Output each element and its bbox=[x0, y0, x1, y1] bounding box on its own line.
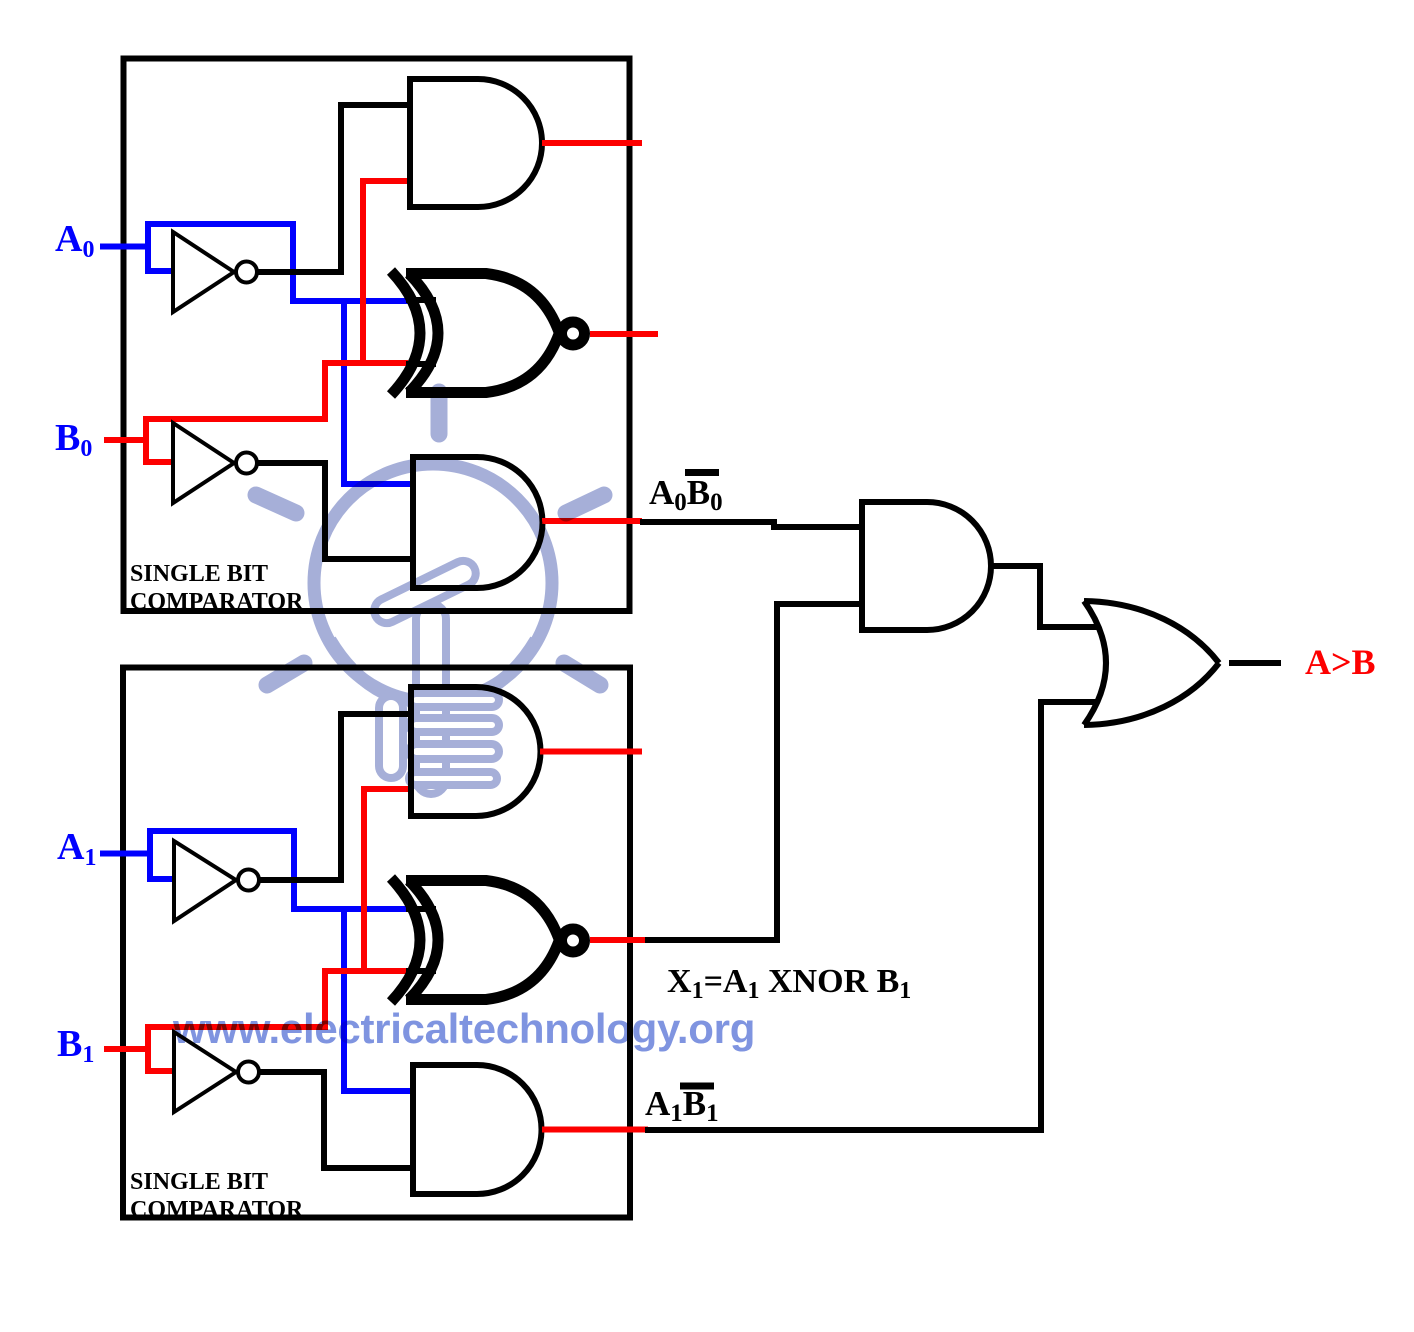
wire: A1B1bar to OR G8 (black) bbox=[645, 702, 1097, 1133]
and gate G1 (A0bar.B0) bbox=[410, 79, 542, 207]
and gate G7 bbox=[862, 502, 991, 630]
svg-text:SINGLE BIT: SINGLE BIT bbox=[130, 561, 268, 587]
watermark bulb glass circle bbox=[314, 464, 552, 702]
wire: G5 output stub X1 (red) bbox=[590, 937, 648, 943]
watermark hand: finger 2 bbox=[409, 718, 499, 732]
xnor gate G5 body bbox=[406, 881, 559, 1000]
watermark hand: clip diagonal bbox=[370, 557, 480, 628]
box: single bit comparator 1 bbox=[123, 668, 630, 1218]
wire: input row connectors through G5 curves (black) bbox=[406, 909, 436, 971]
svg-text:X1=A1 XNOR B1: X1=A1 XNOR B1 bbox=[667, 963, 911, 1004]
svg-text:COMPARATOR: COMPARATOR bbox=[130, 589, 304, 615]
watermark hand: thumb bbox=[379, 696, 403, 778]
watermark ray top bbox=[431, 392, 448, 434]
xnor gate G2 body bbox=[406, 274, 559, 393]
wire: input row connectors through G2 curves (black) bbox=[406, 300, 436, 364]
wire: G7 output to OR G8 (black) bbox=[991, 563, 1097, 627]
watermark hand: pencil vertical bbox=[416, 604, 446, 794]
svg-text:SINGLE BIT: SINGLE BIT bbox=[130, 1169, 268, 1195]
wire: A1 input net (blue) bbox=[100, 828, 415, 1091]
wire: X1 to AND G7 (black) bbox=[645, 604, 864, 943]
watermark ray upper-left bbox=[256, 495, 296, 513]
wire: G3 output stub (red) bbox=[542, 518, 642, 524]
watermark: light bulb + hand logo and site text (multiply blend) bbox=[172, 392, 755, 1052]
box: single bit comparator 0 bbox=[124, 59, 630, 612]
or gate G8 bbox=[1084, 601, 1219, 725]
wire: A0 input net (blue) bbox=[100, 221, 415, 484]
wire: G2 output stub (red, A0=B0 unused) bbox=[590, 331, 658, 337]
inverter U3 (A1 NOT) bbox=[174, 841, 236, 921]
overline on B1 bbox=[680, 1083, 714, 1090]
wire: B1 input net (red) bbox=[104, 789, 413, 1071]
wire: B0 input net (red) bbox=[104, 181, 412, 462]
wire: B1-bar (black) from U4 to AND G6 bbox=[259, 1069, 415, 1168]
svg-text:www.electricaltechnology.org: www.electricaltechnology.org bbox=[172, 1005, 755, 1052]
xnor gate G2 output bubble bbox=[562, 322, 585, 345]
watermark ray lower-right bbox=[564, 663, 600, 685]
wire: A0-bar (black) from U1 to AND G1 bbox=[257, 105, 412, 275]
watermark bulb neck taper left bbox=[330, 640, 384, 693]
overline on B0 bbox=[685, 469, 719, 476]
wire: output A>B (black) bbox=[1229, 660, 1281, 666]
xnor gate G2 (A0 XNOR B0) input curve bbox=[391, 271, 420, 395]
and gate G4 (A1bar.B1) bbox=[411, 687, 541, 816]
wire: A1-bar (black) from U3 to AND G4 bbox=[259, 714, 413, 883]
watermark ray lower-left bbox=[267, 663, 304, 685]
inverter U2 (B0 NOT) bbox=[173, 423, 234, 503]
svg-text:COMPARATOR: COMPARATOR bbox=[130, 1197, 304, 1223]
xnor gate G5 output bubble bbox=[562, 929, 585, 952]
watermark hand: finger 3 bbox=[409, 744, 499, 759]
wire: G6 output stub (red) bbox=[542, 1127, 648, 1133]
xnor gate G5 (A1 XNOR B1) input curve bbox=[391, 878, 420, 1002]
wire: B0-bar (black) from U2 to AND G3 bbox=[257, 460, 415, 559]
wire: G4 output stub (red) bbox=[540, 749, 642, 755]
watermark bulb neck taper right bbox=[482, 640, 536, 693]
inverter U4 (B1 NOT) bbox=[174, 1032, 236, 1112]
wire: A0B0bar to AND G7 (black) bbox=[640, 522, 864, 527]
and gate G6 (A1.B1bar) bbox=[413, 1065, 542, 1194]
inverter U1 (A0 NOT) bbox=[173, 232, 234, 312]
svg-text:A>B: A>B bbox=[1305, 642, 1376, 682]
and gate G3 (A0.B0bar) bbox=[413, 457, 542, 588]
watermark hand: finger 4 bbox=[409, 772, 497, 785]
wire: G1 output stub (red) bbox=[542, 140, 642, 146]
watermark ray upper-right bbox=[566, 495, 604, 513]
watermark hand: finger 1 bbox=[409, 693, 499, 707]
